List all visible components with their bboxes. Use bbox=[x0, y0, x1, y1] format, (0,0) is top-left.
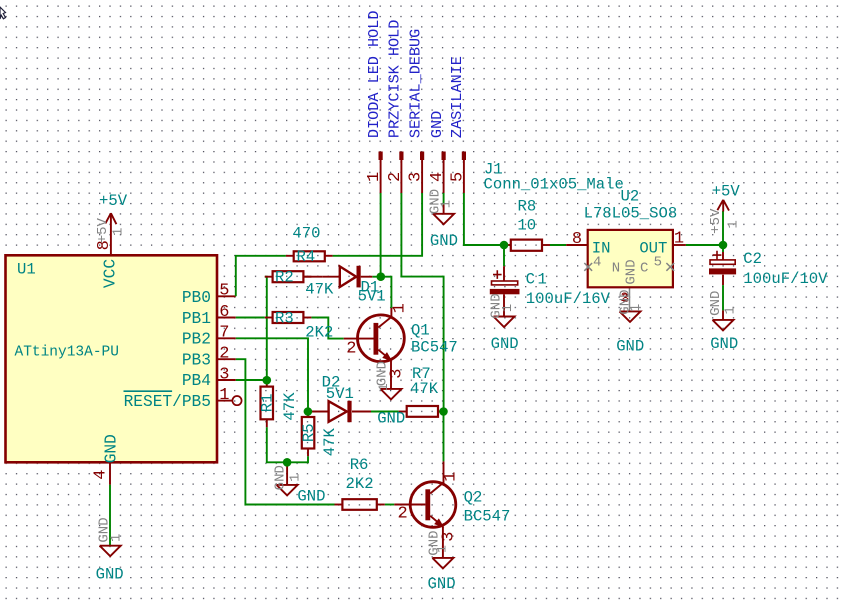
net label GND near R7 bbox=[377, 410, 405, 428]
pin number 4 J1 bbox=[428, 172, 447, 182]
wire ZASILANIE to R8 bbox=[464, 193, 503, 245]
hidden name GND U2 bbox=[624, 259, 640, 284]
svg-text:1: 1 bbox=[438, 200, 454, 208]
label GND U1 bottom bbox=[96, 565, 124, 583]
label R1 bbox=[259, 394, 277, 413]
label +5V at U2 OUT bbox=[712, 182, 741, 200]
hidden text GND U1 bottom bbox=[97, 517, 113, 542]
svg-text:5V1: 5V1 bbox=[358, 288, 386, 306]
pin J1 pin2 bbox=[399, 152, 403, 194]
pin J1 pin4 bbox=[442, 152, 446, 194]
svg-text:470: 470 bbox=[292, 225, 320, 243]
pin number 2 J1 bbox=[386, 172, 405, 182]
pin number 1 U2 bbox=[674, 229, 684, 248]
pin C2 gnd stub bbox=[722, 310, 724, 320]
pin R1 top stub bbox=[266, 380, 268, 386]
svg-text:47K: 47K bbox=[305, 281, 334, 299]
pin U2 pin 8 stub bbox=[566, 244, 588, 246]
pin number 3 Q2 bbox=[440, 531, 459, 541]
regulator U2 body bbox=[588, 230, 673, 287]
svg-text:GND: GND bbox=[428, 575, 456, 593]
svg-text:5V1: 5V1 bbox=[326, 385, 354, 403]
svg-text:1: 1 bbox=[628, 304, 644, 312]
pin Q1 emitter stub bbox=[390, 360, 392, 389]
svg-text:4: 4 bbox=[428, 172, 447, 182]
transistor Q2 bbox=[410, 482, 456, 528]
svg-text:1: 1 bbox=[500, 304, 516, 312]
wire R5 bottom to gnd node bbox=[287, 456, 308, 462]
wire R7 node to Q2 collector bbox=[443, 412, 445, 462]
junction PB4-R1-R2 bbox=[263, 376, 272, 385]
svg-text:6: 6 bbox=[219, 303, 229, 322]
svg-text:GND: GND bbox=[96, 565, 124, 583]
svg-text:PB3: PB3 bbox=[182, 351, 211, 369]
svg-text:R3: R3 bbox=[275, 309, 294, 327]
svg-text:100uF/10V: 100uF/10V bbox=[743, 270, 828, 288]
wire R2 left to PB4 node bbox=[265, 277, 267, 380]
label GND R1R5 node bbox=[297, 488, 325, 506]
pin name PB1 bbox=[182, 310, 211, 328]
hidden pin 1 C1 bbox=[500, 304, 516, 312]
pin number 1 Q1 bbox=[390, 303, 409, 313]
svg-text:R2: R2 bbox=[275, 269, 294, 287]
hidden pin 1 J1 gnd bbox=[438, 200, 454, 208]
pin name PB2 bbox=[182, 331, 211, 349]
svg-text:L78L05_SO8: L78L05_SO8 bbox=[584, 205, 678, 223]
wire DIODA LED HOLD to node A bbox=[380, 193, 382, 277]
power +5V symbol at U2 OUT bbox=[717, 200, 729, 212]
svg-text:R8: R8 bbox=[518, 198, 537, 216]
svg-text:5: 5 bbox=[654, 254, 662, 270]
hidden pin 1 Q1 gnd bbox=[376, 383, 391, 391]
svg-text:U1: U1 bbox=[17, 261, 36, 279]
hidden text GND Q1 bbox=[375, 361, 391, 386]
hidden pin 1 +5V right bbox=[726, 220, 742, 228]
junction PB2-D2-R5 bbox=[304, 407, 313, 416]
hidden text GND U2 bottom bbox=[617, 289, 633, 314]
label 10 R8 bbox=[517, 216, 536, 234]
pin name PB4 bbox=[182, 372, 211, 390]
hidden pin 5 U2 bbox=[654, 254, 662, 270]
wire D1 cathode to node A bbox=[372, 276, 381, 278]
ground symbol Q1 emitter bbox=[381, 389, 402, 400]
hidden pin 4 U2 bbox=[593, 254, 601, 270]
resistor R4 bbox=[286, 251, 333, 261]
pin number 2 Q1 bbox=[346, 340, 356, 359]
label GND C1 bbox=[491, 335, 519, 353]
wire PB4 to R1 node bbox=[236, 379, 267, 381]
pin R8 left stub bbox=[503, 244, 511, 246]
pin number 8 U2 bbox=[572, 230, 582, 249]
svg-text:8: 8 bbox=[572, 230, 582, 249]
hidden text GND C2 bbox=[708, 291, 724, 316]
net label PRZYCISK HOLD bbox=[386, 20, 404, 138]
label BC547 Q2 bbox=[464, 508, 511, 526]
diode D2 bbox=[329, 401, 350, 422]
svg-text:Q1: Q1 bbox=[411, 321, 430, 339]
wire R4 to SERIAL_DEBUG bbox=[333, 193, 423, 256]
pin C1 top stub bbox=[503, 266, 505, 281]
svg-text:DIODA LED HOLD: DIODA LED HOLD bbox=[365, 10, 383, 138]
label 470 bbox=[292, 225, 320, 243]
pin PB2 stub (pin 7) bbox=[217, 337, 236, 339]
hidden pin 1 U1 bottom bbox=[109, 534, 125, 542]
pin D2 anode stub bbox=[312, 411, 329, 413]
svg-text:ATtiny13A-PU: ATtiny13A-PU bbox=[15, 345, 119, 361]
wire D2 to R7 (GND net) bbox=[371, 411, 399, 413]
label R2 bbox=[275, 269, 294, 287]
svg-text:C2: C2 bbox=[743, 250, 762, 268]
pin Q2 collector stub bbox=[443, 461, 445, 483]
label L78L05_SO8 bbox=[584, 205, 678, 223]
pin U1 GND stub (pin 4) bbox=[109, 462, 111, 484]
hidden text GND C1 bbox=[488, 293, 504, 318]
resistor R5 bbox=[302, 417, 315, 449]
label R7 bbox=[412, 365, 431, 383]
svg-text:GND: GND bbox=[491, 335, 519, 353]
label ATtiny13A-PU value bbox=[15, 345, 119, 361]
ground symbol C2 bbox=[713, 320, 734, 331]
pin number 5 J1 bbox=[448, 172, 467, 182]
svg-text:2K2: 2K2 bbox=[305, 323, 333, 341]
wire PB1 to R3 bbox=[236, 317, 265, 319]
pin R5 bottom stub bbox=[307, 449, 309, 457]
wire C2 bottom bbox=[722, 285, 724, 310]
pin number 3 J1 bbox=[407, 172, 426, 182]
hidden pin text +5V left bbox=[95, 218, 111, 244]
svg-text:1: 1 bbox=[674, 229, 684, 248]
resistor R3 bbox=[265, 312, 312, 323]
svg-text:1: 1 bbox=[219, 386, 229, 405]
resistor R6 bbox=[335, 499, 385, 510]
label 47K R5 bbox=[321, 428, 339, 457]
label GND U2 bbox=[616, 338, 644, 356]
svg-text:7: 7 bbox=[219, 324, 229, 343]
label 47K R2 bbox=[305, 281, 334, 299]
ground symbol Q2 emitter bbox=[432, 558, 453, 569]
svg-text:R1: R1 bbox=[259, 394, 277, 413]
pin Q1 base stub bbox=[344, 338, 374, 340]
svg-text:10: 10 bbox=[517, 216, 536, 234]
resistor R7 bbox=[407, 406, 438, 417]
label Q1 bbox=[411, 321, 430, 339]
resistor R2 bbox=[265, 271, 312, 282]
svg-text:C1: C1 bbox=[526, 270, 550, 288]
svg-text:1: 1 bbox=[109, 534, 125, 542]
svg-text:GND: GND bbox=[616, 338, 644, 356]
label BC547 Q1 bbox=[411, 338, 458, 356]
no-connect cross pin 4 bbox=[584, 263, 592, 271]
label R5 bbox=[300, 423, 318, 442]
svg-text:4: 4 bbox=[593, 254, 601, 270]
capacitor C1 bbox=[490, 270, 520, 294]
pin name GND U1 bbox=[103, 434, 121, 463]
svg-text:2K2: 2K2 bbox=[346, 475, 374, 493]
pin name PB0 bbox=[182, 289, 211, 307]
net label GND bbox=[428, 111, 446, 138]
label 5V1 D2 bbox=[326, 385, 354, 403]
diode D1 bbox=[323, 266, 373, 288]
label D1 bbox=[361, 279, 380, 297]
pin R7 left stub bbox=[399, 411, 407, 413]
svg-text:1: 1 bbox=[390, 303, 409, 313]
svg-text:4: 4 bbox=[92, 469, 111, 479]
pin R5 top stub bbox=[307, 412, 309, 418]
label 2K2 R3 bbox=[305, 323, 333, 341]
hidden pin 1 C2 bbox=[722, 306, 738, 314]
svg-text:BC547: BC547 bbox=[464, 508, 511, 526]
pin number 6 bbox=[219, 303, 229, 322]
svg-text:SERIAL_DEBUG: SERIAL_DEBUG bbox=[406, 29, 424, 138]
pin PB1 stub (pin 6) bbox=[217, 317, 236, 319]
net label ZASILANIE bbox=[448, 56, 466, 138]
svg-text:2: 2 bbox=[346, 340, 356, 359]
svg-text:2: 2 bbox=[398, 505, 408, 524]
pin D2 cathode stub bbox=[352, 411, 371, 413]
net label SERIAL_DEBUG bbox=[406, 29, 424, 138]
hidden pin 1 Q2 gnd bbox=[434, 545, 449, 553]
svg-text:+5V: +5V bbox=[95, 218, 111, 244]
svg-text:PB2: PB2 bbox=[182, 331, 211, 349]
label GND C2 bbox=[710, 335, 738, 353]
label D2 bbox=[322, 374, 341, 392]
label C1 bbox=[526, 270, 550, 288]
svg-text:2: 2 bbox=[219, 345, 229, 364]
svg-text:1: 1 bbox=[376, 383, 391, 391]
label 5V1 D1 bbox=[358, 288, 386, 306]
pin number 1 bbox=[219, 386, 229, 405]
junction ZASILANIE-R8-C1 bbox=[500, 241, 509, 250]
junction U2 OUT +5V C2 bbox=[719, 241, 728, 250]
pin R1 bottom stub bbox=[266, 419, 268, 427]
hidden pin 1 U2 bottom bbox=[628, 304, 644, 312]
wire C2 top bbox=[722, 245, 724, 252]
svg-text:1: 1 bbox=[434, 545, 449, 553]
pin R7 right stub bbox=[438, 411, 444, 413]
pin C2 bottom stub bbox=[722, 275, 724, 285]
label C2 bbox=[743, 250, 762, 268]
svg-text:PB0: PB0 bbox=[182, 289, 211, 307]
pin number 1 J1 bbox=[365, 172, 384, 182]
wire R6 to Q2 base bbox=[385, 504, 395, 506]
wire PRZYCISK HOLD to R7 node bbox=[401, 193, 443, 412]
wire PB2 to D2 node bbox=[236, 338, 308, 411]
svg-text:U2: U2 bbox=[621, 187, 640, 205]
svg-text:R5: R5 bbox=[300, 423, 318, 442]
svg-text:1: 1 bbox=[442, 471, 461, 481]
wire C1 top bbox=[503, 245, 505, 266]
transistor Q1 bbox=[358, 315, 405, 362]
hidden text GND J1 pin4 bbox=[427, 189, 443, 214]
svg-text:+5V: +5V bbox=[712, 182, 741, 200]
hidden text GND Q2 bbox=[427, 530, 443, 555]
label 47K R7 bbox=[410, 380, 439, 398]
svg-text:1: 1 bbox=[722, 306, 738, 314]
pin U2 gnd stub bbox=[629, 287, 631, 311]
pin C1 bottom stub bbox=[503, 294, 505, 316]
ground symbol U1 pin4 bbox=[100, 546, 121, 557]
hidden name NC U2 bbox=[612, 260, 649, 276]
wire PB0 to R4 bbox=[236, 256, 286, 296]
svg-text:GND: GND bbox=[624, 259, 640, 284]
svg-text:100uF/16V: 100uF/16V bbox=[526, 290, 611, 308]
pin number 5 bbox=[219, 282, 229, 301]
label +5V at U1 bbox=[99, 192, 128, 210]
svg-text:Q2: Q2 bbox=[464, 489, 483, 507]
net label DIODA LED HOLD bbox=[365, 10, 383, 138]
svg-text:5: 5 bbox=[219, 282, 229, 301]
no-connect cross pin 5 bbox=[666, 263, 674, 271]
pin J1 pin1 bbox=[379, 152, 383, 194]
svg-text:RESET/PB5: RESET/PB5 bbox=[124, 393, 211, 411]
pin J1 pin3 bbox=[420, 152, 424, 194]
wire R8 to U2 IN bbox=[550, 244, 566, 246]
svg-text:2: 2 bbox=[386, 172, 405, 182]
pin Q1 collector stub bbox=[390, 308, 392, 317]
pin number 1 Q2 bbox=[442, 471, 461, 481]
hidden text +5V right bbox=[708, 208, 724, 234]
label Conn_01x05_Male bbox=[484, 175, 624, 193]
pin U1 VCC stub (pin 8) bbox=[110, 213, 112, 255]
mouse cursor bbox=[0, 7, 6, 19]
wire R3 to Q1 base bbox=[311, 318, 343, 339]
pin number 8 VCC bbox=[95, 240, 114, 250]
svg-text:1: 1 bbox=[365, 172, 384, 182]
hidden pin 1 +5V left bbox=[111, 228, 127, 236]
label 2K2 R6 bbox=[346, 475, 374, 493]
hidden pin 1 R1R5 node bbox=[288, 473, 304, 481]
label GND Q2 bbox=[428, 575, 456, 593]
label U1 reference bbox=[17, 261, 36, 279]
pin number 2 bbox=[219, 345, 229, 364]
pin J1 pin5 bbox=[462, 152, 466, 194]
hidden pins 2 3 U2 gnd bbox=[621, 290, 630, 306]
svg-text:1: 1 bbox=[726, 220, 742, 228]
svg-text:GND: GND bbox=[710, 335, 738, 353]
svg-text:BC547: BC547 bbox=[411, 338, 458, 356]
svg-text:+5V: +5V bbox=[99, 192, 128, 210]
pin number 3 Q1 bbox=[388, 368, 407, 378]
svg-text:+5V: +5V bbox=[708, 208, 724, 234]
wire J1 pin4 to gnd bbox=[443, 193, 445, 214]
pin name PB3 bbox=[182, 351, 211, 369]
svg-text:3: 3 bbox=[407, 172, 426, 182]
label U2 reference bbox=[621, 187, 640, 205]
junction node A (D1 cathode) bbox=[377, 272, 386, 281]
svg-text:47K: 47K bbox=[321, 428, 339, 457]
svg-text:3: 3 bbox=[219, 365, 229, 384]
pin Q2 emitter stub bbox=[442, 527, 444, 558]
label GND J1 pin4 bbox=[430, 232, 458, 250]
capacitor C2 bbox=[709, 251, 736, 275]
label R8 bbox=[518, 198, 537, 216]
resistor R8 bbox=[511, 240, 542, 251]
wire PB3 to R6 bbox=[236, 359, 335, 504]
pin R8 right stub bbox=[542, 244, 550, 246]
pin number 2 Q2 bbox=[398, 505, 408, 524]
svg-text:GND: GND bbox=[297, 488, 325, 506]
wire node A to Q1 collector bbox=[381, 277, 392, 308]
svg-text:C: C bbox=[640, 260, 648, 276]
ground symbol R1-R5 node bbox=[277, 485, 298, 496]
label 100uF/16V bbox=[526, 290, 611, 308]
label R6 bbox=[350, 456, 369, 474]
svg-text:GND: GND bbox=[377, 410, 405, 428]
svg-text:47K: 47K bbox=[410, 380, 439, 398]
inverted pin bubble RESET/PB5 (pin 1) bbox=[217, 396, 242, 405]
pin number 7 bbox=[219, 324, 229, 343]
svg-text:PB4: PB4 bbox=[182, 372, 211, 390]
pin PB0 stub (pin 5) bbox=[217, 295, 236, 297]
pin Q2 base stub bbox=[394, 504, 425, 506]
pin name VCC bbox=[101, 259, 119, 288]
wire R1 bottom to gnd node bbox=[267, 427, 287, 462]
ground symbol U2 bbox=[620, 311, 641, 322]
label 47K R1 bbox=[281, 392, 299, 421]
hidden text GND R1R5 node bbox=[272, 465, 288, 490]
svg-text:GND: GND bbox=[430, 232, 458, 250]
svg-text:R6: R6 bbox=[350, 456, 369, 474]
svg-text:5: 5 bbox=[448, 172, 467, 182]
ground symbol J1 pin4 bbox=[433, 214, 454, 225]
label Q2 bbox=[464, 489, 483, 507]
junction R7-Q2 collector bbox=[439, 407, 448, 416]
pin name RESET/PB5 bbox=[124, 391, 212, 411]
pin name IN bbox=[592, 239, 611, 257]
wire U1 GND down bbox=[109, 485, 111, 546]
label R3 bbox=[275, 309, 294, 327]
pin C2 top stub bbox=[722, 252, 724, 260]
svg-text:1: 1 bbox=[111, 228, 127, 236]
pin number 3 bbox=[219, 365, 229, 384]
svg-text:PB1: PB1 bbox=[182, 310, 211, 328]
svg-text:ZASILANIE: ZASILANIE bbox=[448, 56, 466, 138]
svg-text:GND: GND bbox=[375, 361, 391, 386]
IC U1 body bbox=[6, 255, 218, 462]
svg-text:PRZYCISK HOLD: PRZYCISK HOLD bbox=[386, 20, 404, 138]
pin PB4 stub (pin 3) bbox=[217, 379, 236, 381]
svg-text:Conn_01x05_Male: Conn_01x05_Male bbox=[484, 175, 624, 193]
power +5V symbol at U1 bbox=[105, 213, 116, 224]
pin PB3 stub (pin 2) bbox=[217, 358, 236, 360]
pin U2 pin 1 stub bbox=[673, 244, 686, 246]
wire U2 OUT to +5V node bbox=[686, 244, 723, 246]
label J1 reference bbox=[484, 160, 503, 178]
label R4 bbox=[297, 248, 316, 266]
pin number 4 GND bbox=[92, 469, 111, 479]
wire gnd node down bbox=[286, 462, 288, 485]
svg-text:R4: R4 bbox=[297, 248, 316, 266]
svg-text:GND: GND bbox=[428, 111, 446, 138]
svg-text:GND: GND bbox=[272, 465, 288, 490]
svg-text:VCC: VCC bbox=[101, 259, 119, 288]
svg-text:GND: GND bbox=[103, 434, 121, 463]
ground symbol C1 bbox=[494, 317, 515, 328]
label 100uF/10V bbox=[743, 270, 828, 288]
wire +5V node up bbox=[722, 211, 724, 245]
junction R1-R5 gnd bbox=[283, 458, 292, 467]
svg-text:N: N bbox=[612, 260, 620, 276]
svg-text:1: 1 bbox=[288, 473, 304, 481]
svg-text:47K: 47K bbox=[281, 392, 299, 421]
pin name OUT bbox=[639, 239, 667, 257]
resistor R1 bbox=[261, 387, 274, 420]
wire R2 to D1 anode bbox=[303, 276, 322, 278]
